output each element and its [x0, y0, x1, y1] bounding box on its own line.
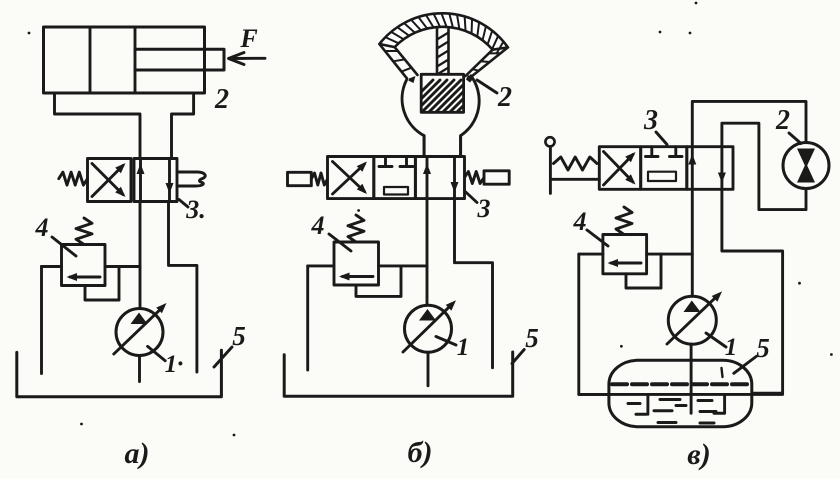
svg-text:3.: 3.: [185, 195, 206, 224]
directional valve 3 (fig в) left position box with crossed arrows: [599, 147, 640, 190]
label 5 (fig в) with leader: [734, 333, 770, 373]
sealed tank 5 (fig в) closed reservoir: [609, 360, 752, 426]
rotary actuator 2 sector arc band with hatching: [379, 13, 508, 53]
valve 3 manual actuator (right): [177, 172, 205, 186]
label 3 (valve, fig б) with leader: [466, 192, 491, 223]
tank 5 (fig б) open reservoir: [284, 352, 513, 396]
svg-text:1: 1: [725, 334, 738, 361]
valve 3 (fig б) left spring and end box: [288, 172, 328, 185]
caption a): [125, 437, 150, 470]
manual lever with ball knob (valve actuator, fig в): [545, 137, 599, 193]
svg-text:2: 2: [497, 82, 512, 113]
variable displacement pump 1 (fig a): [114, 303, 167, 356]
pressure relief valve 4 (fig a) box: [62, 245, 106, 286]
wire: pump suction pipe (fig б): [427, 352, 430, 386]
svg-text:б): б): [408, 436, 433, 469]
force F arrow: [229, 53, 266, 65]
hydraulic cylinder 2 (fig a) body: [44, 27, 205, 93]
svg-text:2: 2: [214, 84, 229, 115]
wire: pump to valve pressure line (fig б): [426, 199, 429, 305]
wire: valve return to tank (fig б): [455, 199, 493, 368]
svg-text:F: F: [239, 24, 257, 53]
wire: relief valve drain to tank (fig в): [579, 254, 609, 394]
wire: valve return line to tank (fig a): [169, 202, 197, 373]
svg-text:1: 1: [457, 334, 470, 361]
rotary actuator 2 junction wedges: [408, 75, 473, 83]
pump 1 variable arrow: [114, 307, 163, 354]
label 4 (fig б) with leader: [311, 211, 352, 251]
wire: valve to motor supply line (fig в): [692, 101, 806, 146]
svg-text:5: 5: [525, 323, 539, 353]
svg-text:5: 5: [756, 333, 770, 363]
wire: valve return to tank (fig в): [722, 189, 783, 393]
wire: relief valve pilot loop (fig в): [626, 254, 661, 288]
label 3 (valve, fig в) with leader: [643, 105, 667, 145]
directional valve 3 (fig б) right position box with through arrows: [415, 157, 464, 199]
directional valve 3 (fig a) right position box with through-flow arrows: [134, 159, 177, 202]
svg-text:4: 4: [311, 211, 325, 240]
directional valve 3 (fig б) centre position box (closed centre): [374, 157, 416, 199]
wire: relief valve drain to tank (fig a): [40, 267, 43, 374]
pressure relief valve 4 (fig б) box: [334, 242, 379, 285]
variable displacement pump 1 (fig б): [403, 300, 456, 352]
label 1 (pump, fig б) with leader: [436, 334, 469, 361]
valve 3 (fig б) right spring and end box: [465, 171, 510, 184]
relief valve 4 (fig в) spring: [616, 207, 632, 235]
label 2 (cylinder, fig a): [214, 84, 229, 115]
svg-text:в): в): [687, 438, 710, 471]
wire: relief valve drain to tank (fig б): [306, 266, 309, 370]
label 5 (fig б) with leader tick: [512, 323, 539, 364]
wire: tank internal inlet pipes (fig в): [579, 394, 783, 414]
valve 3 return spring (left): [59, 172, 88, 185]
caption в): [687, 438, 710, 471]
wire: pump to valve pressure line (fig в): [691, 189, 694, 296]
tank 5 oil level dashed line: [612, 382, 748, 386]
svg-text:3: 3: [477, 194, 491, 223]
wire: actuator stems to valve (fig б): [424, 136, 461, 157]
cylinder 2 piston line: [89, 27, 92, 93]
rotary actuator 2 right radial band with hatching: [466, 47, 508, 76]
wire: valve to motor return loop (fig в): [722, 123, 806, 209]
relief valve 4 flow arrow: [70, 276, 100, 279]
wire: relief valve tap line (fig б): [308, 264, 427, 267]
svg-text:3: 3: [643, 105, 658, 136]
rotary actuator 2 (fig б) housing outline (bulb and stem): [402, 76, 479, 157]
tank 5 (fig a) open reservoir: [17, 350, 222, 397]
wire: relief valve tap line (fig в): [579, 253, 693, 256]
tank 5 oil dashes: [628, 368, 724, 423]
cylinder 2 piston rod side line: [134, 27, 137, 93]
caption б): [408, 436, 433, 469]
svg-text:а): а): [125, 437, 150, 470]
label 4 (fig a) with leader: [35, 213, 77, 256]
label 1 (pump, fig в) with leader: [706, 333, 737, 361]
wire: relief valve 4 tap line to pump pressure line (fig a): [42, 265, 141, 268]
label 5 (fig a) with leader tick: [214, 321, 246, 367]
rotary actuator 2 hub with diagonal hatching: [397, 74, 503, 116]
wire: relief valve 4 pilot loop (fig a): [85, 267, 119, 301]
relief valve 4 (fig б) spring: [348, 215, 364, 242]
svg-text:2: 2: [775, 105, 790, 136]
svg-text:4: 4: [573, 207, 587, 236]
wire: pump suction pipe (fig a): [138, 356, 141, 382]
hydraulic motor 2 (fig в): [783, 143, 829, 189]
wire: pump suction pipe into tank (fig в): [690, 344, 693, 413]
wire: pump to valve pressure line (fig a): [139, 202, 142, 309]
rotary actuator 2 left radial band with hatching: [379, 44, 417, 78]
wire: valve arrows pipes inside (fig б): [427, 157, 455, 199]
svg-text:5: 5: [232, 321, 246, 351]
directional valve 3 (fig в) centre position box (closed centre): [641, 147, 687, 190]
label 2 (rotary actuator, fig б) with leader: [477, 80, 512, 113]
label 1 (pump, fig a) with leader: [148, 346, 184, 378]
directional valve 3 (fig a) left position box with crossed-flow arrows: [88, 159, 132, 202]
label 3. (valve, fig a) with leader: [179, 195, 206, 224]
valve 3 (fig в) spring (left): [554, 157, 598, 170]
label 4 (fig в) with leader: [573, 207, 609, 246]
wire: relief valve pilot loop (fig б): [356, 266, 401, 297]
variable displacement pump 1 (fig в): [667, 291, 722, 344]
svg-text:1·: 1·: [165, 351, 184, 378]
pressure relief valve 4 (fig в) box: [603, 235, 647, 274]
directional valve 3 (fig б) left position box with crossed arrows: [328, 157, 374, 199]
cylinder mounting bracket / port block: [55, 93, 194, 159]
relief valve 4 spring (top): [76, 218, 92, 245]
svg-text:4: 4: [35, 213, 49, 242]
label 2 (motor, fig в) with leader: [775, 105, 801, 144]
rotary actuator 2 vane with hatching: [437, 28, 449, 75]
label F: [239, 24, 257, 53]
cylinder 2 piston rod: [135, 49, 224, 70]
directional valve 3 (fig в) right position box with through arrows: [687, 147, 733, 190]
